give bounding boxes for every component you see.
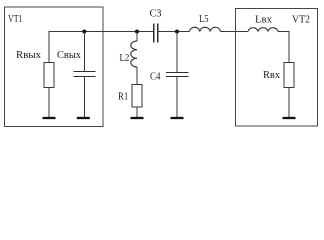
ground terminal under Rвх [283,117,296,119]
svg-text:Lвх: Lвх [255,13,272,25]
transistor stage box VT2 [236,9,318,127]
svg-text:L2: L2 [120,52,130,64]
svg-text:C4: C4 [150,70,161,82]
inductor L5 [190,27,221,31]
wire C3 right plate to L5 [158,31,190,33]
wire L2 top lead [136,32,138,42]
wire C4 bottom lead [176,77,178,118]
resistor Rвх [284,63,294,88]
inductor Lвх [248,28,278,32]
ground terminal under R1 [131,117,144,119]
svg-text:Свых: Свых [57,49,81,61]
wire Свых top lead [83,32,85,72]
transistor stage box VT1 [5,7,104,127]
wire Lвх to Rвх corner [278,32,289,63]
node junction dot L2 [135,30,139,34]
inductor L2 [131,41,137,67]
resistor Rвых [44,63,54,88]
wire R1 bottom lead [136,107,138,117]
wire top bus from Rвых corner to C3 left plate [49,32,154,63]
wire Rвых bottom lead [48,88,50,118]
svg-text:C3: C3 [150,7,162,19]
svg-text:L5: L5 [199,13,209,25]
node junction dot C4 [175,30,179,34]
wire Свых bottom lead [83,77,85,118]
wire Rвх bottom lead [288,88,290,118]
svg-text:R1: R1 [118,90,128,102]
node junction dot Свых [82,30,86,34]
ground terminal under Rвых [43,117,56,119]
wire L2 to R1 [136,67,138,85]
svg-text:Rвх: Rвх [263,69,280,81]
svg-text:VT1: VT1 [8,13,23,25]
svg-text:Rвых: Rвых [16,49,41,61]
ground terminal under C4 [171,117,184,119]
capacitor C3 [154,24,158,43]
capacitor C4 [166,73,189,77]
wire L5 to Lвх [221,31,249,33]
resistor R1 [132,85,142,108]
capacitor Свых [73,72,95,77]
ground terminal under Свых [77,117,90,119]
svg-text:VT2: VT2 [292,13,310,25]
wire C4 top lead [176,32,178,73]
